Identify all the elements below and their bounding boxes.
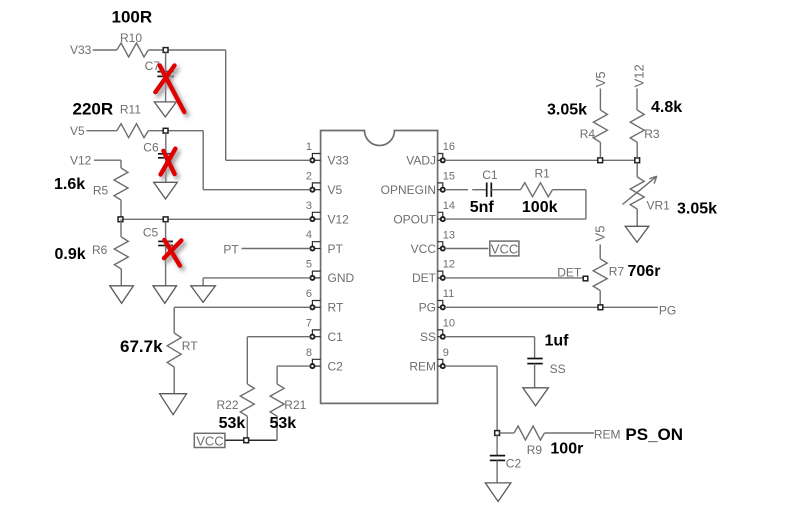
svg-text:R9: R9 xyxy=(527,443,543,457)
svg-text:R5: R5 xyxy=(93,184,109,198)
svg-text:C1: C1 xyxy=(482,168,498,182)
svg-text:V5: V5 xyxy=(70,124,85,138)
svg-text:DET: DET xyxy=(557,265,582,279)
svg-text:C2: C2 xyxy=(506,457,522,471)
svg-text:PT: PT xyxy=(328,242,344,256)
svg-text:V5: V5 xyxy=(328,183,343,197)
svg-text:0.9k: 0.9k xyxy=(55,246,86,263)
svg-text:PG: PG xyxy=(419,301,436,315)
svg-text:3.05k: 3.05k xyxy=(547,102,587,119)
svg-text:RT: RT xyxy=(328,301,344,315)
svg-text:R7: R7 xyxy=(609,265,625,279)
svg-text:SS: SS xyxy=(420,330,436,344)
svg-text:VCC: VCC xyxy=(411,242,437,256)
svg-text:10: 10 xyxy=(443,318,455,330)
svg-text:13: 13 xyxy=(443,229,455,241)
svg-text:PT: PT xyxy=(223,243,239,257)
svg-text:4.8k: 4.8k xyxy=(651,99,682,116)
svg-text:9: 9 xyxy=(443,347,449,359)
svg-text:2: 2 xyxy=(306,170,312,182)
svg-text:15: 15 xyxy=(443,171,455,183)
svg-text:R1: R1 xyxy=(535,167,551,181)
svg-text:V33: V33 xyxy=(328,154,350,168)
svg-text:PS_ON: PS_ON xyxy=(625,425,683,444)
svg-text:REM: REM xyxy=(594,427,621,441)
svg-text:5: 5 xyxy=(306,259,312,271)
svg-text:R22: R22 xyxy=(217,398,239,412)
svg-text:1uf: 1uf xyxy=(545,333,570,350)
svg-text:V5: V5 xyxy=(593,226,608,242)
svg-text:V12: V12 xyxy=(328,212,350,226)
svg-text:11: 11 xyxy=(443,288,454,300)
svg-text:100R: 100R xyxy=(112,7,153,26)
svg-text:5nf: 5nf xyxy=(470,199,495,216)
svg-text:4: 4 xyxy=(306,229,312,241)
svg-text:V33: V33 xyxy=(70,43,92,57)
svg-text:67.7k: 67.7k xyxy=(120,337,163,356)
svg-text:V12: V12 xyxy=(632,64,647,87)
svg-text:SS: SS xyxy=(550,362,566,376)
svg-text:R3: R3 xyxy=(644,127,660,141)
svg-text:C6: C6 xyxy=(143,141,159,155)
svg-text:R21: R21 xyxy=(284,398,306,412)
svg-text:14: 14 xyxy=(443,200,455,212)
svg-text:53k: 53k xyxy=(270,415,297,432)
svg-text:100r: 100r xyxy=(550,441,583,458)
svg-text:R4: R4 xyxy=(580,127,596,141)
svg-text:R6: R6 xyxy=(92,243,108,257)
svg-text:C5: C5 xyxy=(143,226,159,240)
svg-text:220R: 220R xyxy=(73,100,114,119)
svg-text:R11: R11 xyxy=(120,103,141,117)
svg-text:OPNEGIN: OPNEGIN xyxy=(381,183,436,197)
svg-text:V5: V5 xyxy=(593,71,608,87)
svg-text:16: 16 xyxy=(443,141,455,153)
svg-text:3.05k: 3.05k xyxy=(677,201,717,218)
svg-text:OPOUT: OPOUT xyxy=(393,212,436,226)
svg-text:3: 3 xyxy=(306,200,312,212)
svg-text:GND: GND xyxy=(328,271,355,285)
svg-text:VR1: VR1 xyxy=(647,199,671,213)
svg-text:REM: REM xyxy=(409,359,436,373)
svg-text:VCC: VCC xyxy=(491,242,518,257)
svg-text:8: 8 xyxy=(306,347,312,359)
svg-text:DET: DET xyxy=(412,271,437,285)
svg-text:1: 1 xyxy=(306,141,312,153)
svg-text:6: 6 xyxy=(306,288,312,300)
svg-text:C1: C1 xyxy=(328,330,344,344)
svg-text:7: 7 xyxy=(306,317,312,329)
svg-text:VCC: VCC xyxy=(196,434,223,449)
svg-text:100k: 100k xyxy=(522,199,558,216)
svg-text:R10: R10 xyxy=(120,31,142,45)
svg-text:C2: C2 xyxy=(328,359,344,373)
svg-text:706r: 706r xyxy=(628,263,661,280)
svg-text:53k: 53k xyxy=(219,415,246,432)
svg-text:VADJ: VADJ xyxy=(406,154,436,168)
svg-text:V12: V12 xyxy=(70,154,92,168)
svg-text:1.6k: 1.6k xyxy=(54,176,85,193)
svg-text:RT: RT xyxy=(182,339,198,353)
svg-text:PG: PG xyxy=(659,304,676,318)
svg-text:12: 12 xyxy=(443,259,455,271)
